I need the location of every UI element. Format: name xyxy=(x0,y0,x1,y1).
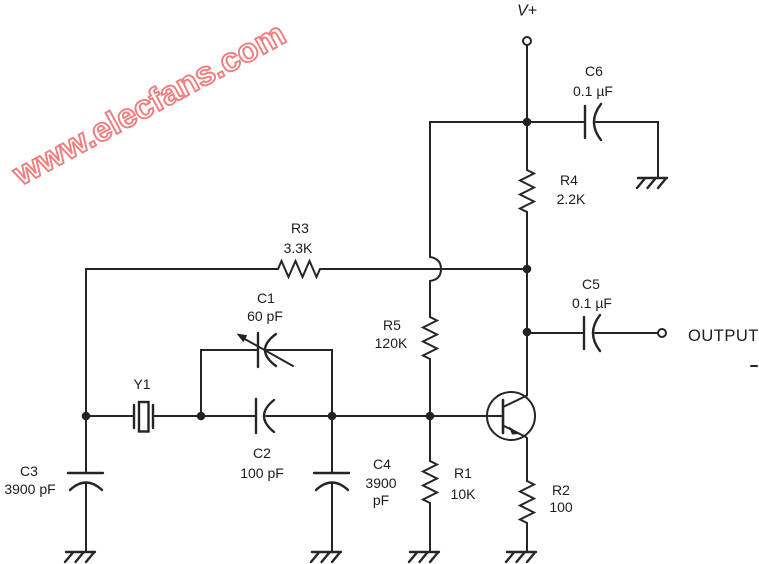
wire node to Y1 xyxy=(86,415,134,417)
resistor R2 xyxy=(520,481,573,523)
capacitor C4 xyxy=(314,456,397,508)
terminal V+ xyxy=(523,37,531,45)
svg-text:R2: R2 xyxy=(552,482,570,498)
wire C1 loop right xyxy=(267,350,332,416)
wire C4 node down xyxy=(331,416,333,473)
resistor R3 xyxy=(278,220,320,277)
wire base xyxy=(430,415,503,417)
wire C5 to output xyxy=(595,332,658,334)
wire rail to R4 xyxy=(526,122,528,170)
svg-text:R1: R1 xyxy=(454,465,472,481)
svg-text:R4: R4 xyxy=(560,172,578,188)
svg-text:0.1 µF: 0.1 µF xyxy=(573,83,613,99)
svg-text:Y1: Y1 xyxy=(133,376,150,392)
svg-text:www.elecfans.com: www.elecfans.com xyxy=(6,15,292,193)
wire collector node down xyxy=(526,269,528,395)
svg-text:pF: pF xyxy=(373,492,389,508)
wire emitter to R2 xyxy=(526,438,528,481)
svg-text:100: 100 xyxy=(549,499,573,515)
svg-text:V+: V+ xyxy=(517,3,537,20)
ground R1 xyxy=(409,552,439,562)
wire C5 row xyxy=(527,332,584,334)
wire R3 to collector node xyxy=(320,268,527,270)
wire R4 to collector node xyxy=(526,212,528,269)
capacitor C1 (variable) xyxy=(237,290,294,367)
svg-text:60 pF: 60 pF xyxy=(247,308,283,324)
node C2/C4 xyxy=(328,412,337,421)
wire R2 to ground xyxy=(526,523,528,552)
wire V+ to top rail xyxy=(526,45,528,122)
capacitor C6 xyxy=(573,63,613,140)
wire node to C2 xyxy=(201,415,256,417)
crystal Y1 xyxy=(133,376,153,432)
wire C1 loop left xyxy=(201,350,258,416)
svg-text:2.2K: 2.2K xyxy=(557,191,586,207)
wire left vertical xyxy=(85,269,87,416)
wire C6 to ground xyxy=(596,122,658,178)
wire R3 row xyxy=(86,268,278,270)
svg-text:C2: C2 xyxy=(253,445,271,461)
node base junction xyxy=(426,412,435,421)
wire hop over R3 wire xyxy=(430,257,441,281)
capacitor C3 xyxy=(4,463,103,497)
node top rail junction xyxy=(523,118,532,127)
wire rail down to hop xyxy=(429,122,431,257)
svg-text:R3: R3 xyxy=(291,220,309,236)
wire base node to R1 xyxy=(429,416,431,461)
transistor Q1 xyxy=(487,392,535,440)
wire hop to R5 xyxy=(429,281,431,317)
node collector/R3/R4 xyxy=(523,265,532,274)
ground C3 xyxy=(65,552,95,562)
capacitor C5 xyxy=(572,276,612,351)
svg-text:120K: 120K xyxy=(375,335,408,351)
wire node to base wire xyxy=(332,415,430,417)
svg-text:100 pF: 100 pF xyxy=(240,465,284,481)
resistor R4 xyxy=(520,170,586,212)
svg-text:3.3K: 3.3K xyxy=(284,240,313,256)
capacitor C2 xyxy=(240,399,284,481)
ground R2 xyxy=(506,552,536,562)
resistor R5 xyxy=(375,317,437,359)
wire Y1 to node xyxy=(153,415,201,417)
svg-text:R5: R5 xyxy=(383,317,401,333)
stray dash xyxy=(751,365,757,367)
wire C3 node down xyxy=(85,416,87,473)
ground C4 xyxy=(311,552,341,562)
wire R5 to base node xyxy=(429,359,431,416)
svg-text:C6: C6 xyxy=(585,63,603,79)
svg-text:3900: 3900 xyxy=(365,475,396,491)
ground C6 xyxy=(637,178,667,188)
wire C3 to ground xyxy=(85,483,87,552)
svg-text:C5: C5 xyxy=(582,276,600,292)
node C1/C2 left xyxy=(197,412,206,421)
wire top rail left xyxy=(430,121,585,123)
node crystal left xyxy=(82,412,91,421)
svg-text:10K: 10K xyxy=(451,486,477,502)
svg-text:C4: C4 xyxy=(373,456,391,472)
wire C4 to ground xyxy=(331,483,333,552)
svg-text:0.1 µF: 0.1 µF xyxy=(572,295,612,311)
svg-text:C1: C1 xyxy=(257,290,275,306)
svg-text:3900 pF: 3900 pF xyxy=(4,481,55,497)
svg-text:C3: C3 xyxy=(20,463,38,479)
terminal OUTPUT xyxy=(658,329,666,337)
node C5 tap xyxy=(523,328,532,337)
resistor R1 xyxy=(423,461,476,503)
wire R1 to ground xyxy=(429,503,431,552)
svg-text:OUTPUT: OUTPUT xyxy=(688,327,759,345)
wire C2 to node xyxy=(266,415,332,417)
